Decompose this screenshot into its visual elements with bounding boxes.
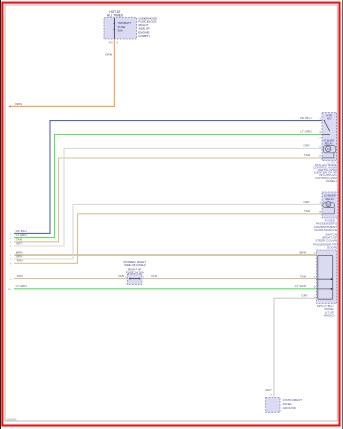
pin A fuse F2 <box>125 275 127 278</box>
label HOT AT ALL TIMES <box>107 10 123 17</box>
label DK BLU right <box>300 116 311 120</box>
pin B fuse F2 <box>143 276 145 278</box>
svg-text:TAN: TAN <box>17 274 23 278</box>
label instrument panel ground <box>283 398 303 410</box>
svg-text:TAN: TAN <box>118 274 124 278</box>
svg-text:TAN: TAN <box>17 259 23 263</box>
label TAN right box2 <box>304 209 310 213</box>
pin char GRY left <box>10 246 12 248</box>
label TAN3 left <box>17 274 23 278</box>
svg-text:G: G <box>10 238 12 240</box>
wire LT GRN <box>14 135 322 238</box>
pin char BRN left <box>10 255 12 257</box>
pin F box3 <box>314 277 316 279</box>
label circuit 370 / pin A <box>109 42 119 45</box>
svg-text:TAN: TAN <box>300 274 306 278</box>
svg-text:TAN: TAN <box>151 274 157 278</box>
switch S1 in box1 <box>322 120 330 134</box>
pin char LT GRN2 left <box>8 289 12 291</box>
svg-text:A/C: A/C <box>327 117 332 121</box>
pin char TAN3 left <box>10 279 12 281</box>
pin char TAN2 left <box>10 264 12 266</box>
svg-text:RELAY: RELAY <box>325 197 334 201</box>
label ORN left <box>15 102 22 106</box>
svg-text:RADIO): RADIO) <box>324 314 335 318</box>
label GRY right box3 <box>301 294 308 298</box>
svg-text:BRN: BRN <box>299 250 306 254</box>
pin char TAN left <box>10 242 12 244</box>
label LT GRN right <box>300 130 311 134</box>
op box4 ground <box>266 398 280 413</box>
pin D box1 <box>319 156 321 158</box>
svg-text:DK BLU: DK BLU <box>300 116 311 120</box>
svg-text:GRY: GRY <box>303 144 310 148</box>
svg-text:DOOR MODULE: DOOR MODULE <box>314 228 337 232</box>
svg-text:ALL TIMES: ALL TIMES <box>107 14 123 18</box>
label GRY2 left <box>16 254 23 258</box>
pin B box1 <box>319 133 321 135</box>
svg-text:DOOR): DOOR) <box>327 246 337 250</box>
connector arrow ORN <box>9 105 11 107</box>
label TAN left <box>16 237 22 241</box>
svg-text:370: 370 <box>109 42 114 45</box>
label GRY bottom <box>265 388 272 392</box>
pin char GRY2 left <box>10 259 12 261</box>
wire ORN vertical <box>113 39 115 106</box>
label fuse F2 connector <box>125 284 127 286</box>
svg-text:50A: 50A <box>118 28 123 32</box>
box1 title <box>326 114 332 121</box>
motor M2 in box2 <box>322 202 335 214</box>
label GRY right box1 <box>303 144 310 148</box>
label TAN right box1 <box>304 153 310 157</box>
label C4 <box>319 138 323 140</box>
svg-text:LT GRN: LT GRN <box>16 284 27 288</box>
svg-text:RELAY: RELAY <box>325 142 333 145</box>
label passenger door annotation <box>313 218 338 249</box>
fuse F2 box <box>128 274 142 285</box>
svg-text:GRY: GRY <box>303 200 310 204</box>
fuse F2 element <box>129 278 140 280</box>
box3 inner resistor block <box>317 255 333 299</box>
label TAN before fuse <box>118 274 124 278</box>
junction dot B row <box>331 288 333 290</box>
svg-text:GROUND: GROUND <box>283 406 297 410</box>
svg-text:GRY: GRY <box>301 294 308 298</box>
wire TAN to box1 <box>14 158 322 242</box>
box1 mid label <box>324 140 334 146</box>
wire LT GRN to box3 <box>14 288 317 290</box>
wire ORN horizontal <box>11 105 115 107</box>
op box2 blower relay <box>322 192 338 218</box>
pin A box1 <box>319 118 321 121</box>
label BRN right <box>299 250 306 254</box>
svg-text:GRY: GRY <box>265 388 272 392</box>
label LT GRN left <box>16 233 27 237</box>
svg-text:SIDE OF: SIDE OF <box>138 26 150 30</box>
box2 title <box>324 193 336 201</box>
svg-text:COMPT): COMPT) <box>138 34 149 38</box>
pin A box4 <box>270 394 272 397</box>
svg-text:RG: RG <box>8 289 12 291</box>
svg-text:ORN: ORN <box>15 102 22 106</box>
wire GRY to box1 <box>14 148 322 246</box>
op box1 A/C control head <box>322 113 337 161</box>
svg-text:GRY: GRY <box>16 242 23 246</box>
fuse F1 value label TRK BATT FUSE 50A <box>118 21 132 32</box>
label BRN left <box>16 250 23 254</box>
label TAN2 left <box>17 259 23 263</box>
wire TAN through fuse F2 <box>14 278 317 280</box>
svg-text:TAN: TAN <box>304 153 310 157</box>
motor M1 in box1 <box>322 146 336 158</box>
op box3 resistor module <box>317 250 337 303</box>
wire DK BLU <box>14 121 322 234</box>
pin A box2 <box>319 202 321 205</box>
label POWER RIGHT I/P FUSE <box>124 260 147 274</box>
label GRY left <box>16 242 23 246</box>
wire BRN <box>14 254 317 256</box>
border frame black left <box>0 0 2 429</box>
label ORN upper <box>105 52 112 56</box>
pin B box2 <box>319 212 321 214</box>
label LT GRN2 left <box>16 284 27 288</box>
junction dot F row <box>331 278 333 280</box>
label splice pack <box>317 304 335 318</box>
wire GRY to ground box4 <box>274 298 317 397</box>
border frame dark right <box>341 0 343 429</box>
fuse block box <box>104 18 137 40</box>
wire GRY to box2 <box>14 204 322 259</box>
doc code <box>7 417 17 421</box>
svg-text:ORN: ORN <box>105 52 112 56</box>
label UNDERHOOD FUSE BLOCK <box>138 16 157 38</box>
pin C box1 <box>319 146 321 148</box>
fuse F1 element <box>114 18 116 39</box>
label DK BLU left <box>16 229 27 233</box>
label TAN after fuse <box>151 274 157 278</box>
svg-text:LT GRN: LT GRN <box>295 284 306 288</box>
label HTR-A/C control assembly <box>313 163 338 183</box>
svg-text:FUSE 24 10A: FUSE 24 10A <box>126 270 144 274</box>
pin char LT GRN left <box>10 238 12 240</box>
svg-text:G: G <box>314 296 316 298</box>
wire TAN to box2 <box>14 214 322 263</box>
label TAN right box3 <box>300 274 306 278</box>
svg-text:96B48A: 96B48A <box>7 417 17 421</box>
pin C box3 <box>314 253 316 255</box>
svg-text:LT GRN: LT GRN <box>300 130 311 134</box>
pin B box3 <box>314 287 316 289</box>
pin G box3 <box>314 296 316 298</box>
svg-text:TAN: TAN <box>304 209 310 213</box>
svg-text:LO BLWR: LO BLWR <box>324 193 336 197</box>
label 12 <box>327 162 339 164</box>
label GRY right box2 <box>303 200 310 204</box>
pin char DK BLU left <box>10 234 12 236</box>
label LT GRN right box3 <box>295 284 306 288</box>
svg-text:PANEL): PANEL) <box>326 179 337 183</box>
